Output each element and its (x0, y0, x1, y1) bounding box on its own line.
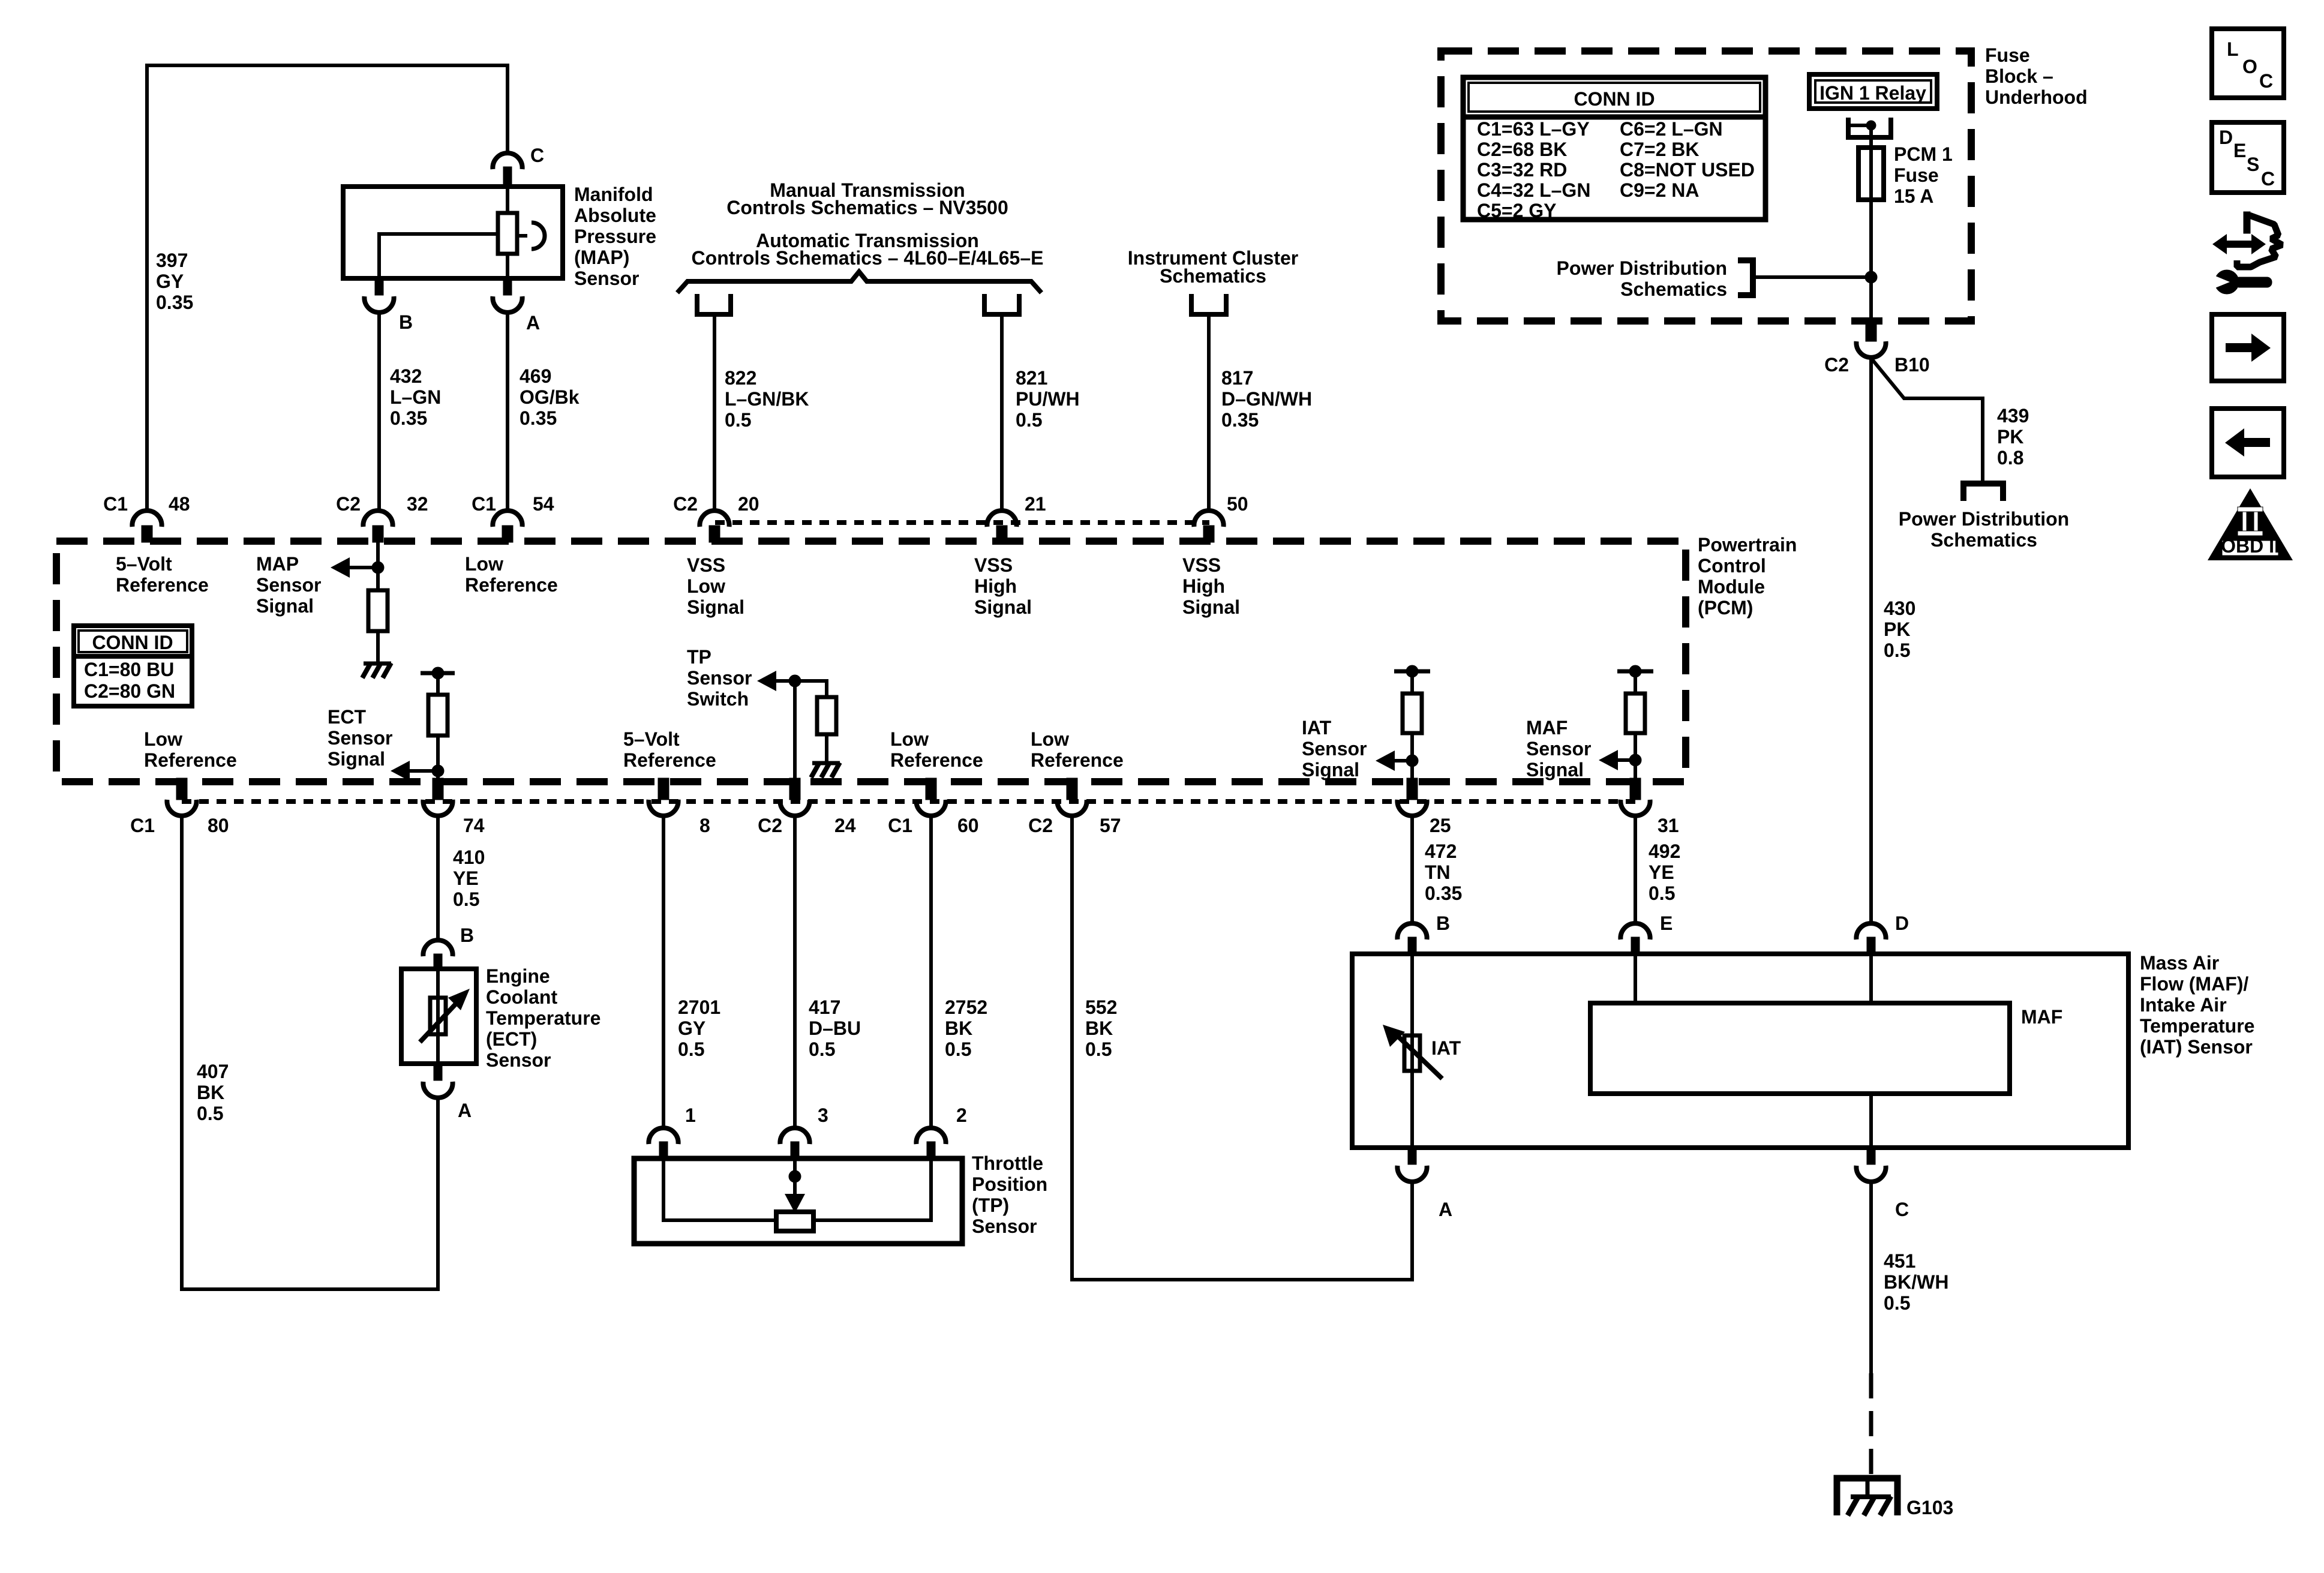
svg-text:PCM 1: PCM 1 (1894, 143, 1953, 165)
svg-text:C1: C1 (103, 493, 128, 515)
svg-text:Sensor: Sensor (486, 1049, 551, 1071)
svg-text:PU/WH: PU/WH (1016, 388, 1080, 410)
svg-text:21: 21 (1025, 493, 1046, 515)
svg-text:Controls Schematics – NV3500: Controls Schematics – NV3500 (726, 197, 1008, 218)
svg-text:451: 451 (1884, 1250, 1915, 1272)
svg-text:YE: YE (453, 867, 479, 889)
svg-text:L–GN: L–GN (390, 386, 441, 408)
svg-text:430: 430 (1884, 598, 1915, 619)
svg-text:Reference: Reference (465, 574, 558, 596)
svg-text:VSS: VSS (974, 554, 1013, 576)
svg-text:Low: Low (890, 728, 929, 750)
svg-text:80: 80 (208, 815, 229, 836)
svg-text:C: C (1895, 1199, 1909, 1220)
svg-text:Fuse: Fuse (1985, 44, 2030, 66)
svg-text:(TP): (TP) (972, 1194, 1009, 1216)
svg-text:Temperature: Temperature (2140, 1015, 2254, 1037)
svg-text:OBD II: OBD II (2221, 535, 2280, 557)
svg-text:0.5: 0.5 (1649, 882, 1675, 904)
svg-text:IAT: IAT (1431, 1037, 1461, 1059)
svg-text:Intake Air: Intake Air (2140, 994, 2227, 1016)
svg-text:VSS: VSS (687, 554, 725, 576)
svg-text:Sensor: Sensor (687, 667, 752, 689)
svg-text:C4=32 L–GN: C4=32 L–GN (1477, 179, 1590, 201)
svg-text:50: 50 (1227, 493, 1248, 515)
svg-text:Coolant: Coolant (486, 986, 557, 1008)
svg-text:B: B (1436, 912, 1450, 934)
svg-text:PK: PK (1884, 619, 1910, 640)
svg-text:822: 822 (725, 367, 756, 389)
svg-text:C6=2 L–GN: C6=2 L–GN (1620, 118, 1723, 140)
svg-text:0.5: 0.5 (1884, 640, 1910, 661)
svg-text:Low: Low (465, 553, 503, 575)
svg-text:2: 2 (956, 1104, 967, 1126)
svg-text:Position: Position (972, 1173, 1047, 1195)
svg-text:D–BU: D–BU (809, 1017, 861, 1039)
svg-text:20: 20 (738, 493, 759, 515)
svg-text:C5=2 GY: C5=2 GY (1477, 200, 1557, 221)
svg-text:439: 439 (1997, 405, 2029, 427)
svg-text:54: 54 (533, 493, 554, 515)
svg-text:Schematics: Schematics (1620, 278, 1727, 300)
svg-text:2701: 2701 (678, 996, 720, 1018)
svg-text:432: 432 (390, 365, 422, 387)
svg-text:0.35: 0.35 (1425, 882, 1462, 904)
svg-text:0.5: 0.5 (453, 888, 479, 910)
svg-text:C8=NOT USED: C8=NOT USED (1620, 159, 1755, 181)
svg-text:0.5: 0.5 (1884, 1292, 1910, 1314)
svg-text:C2: C2 (758, 815, 782, 836)
svg-text:Schematics: Schematics (1930, 529, 2037, 551)
svg-text:Sensor: Sensor (1302, 738, 1367, 760)
svg-text:Throttle: Throttle (972, 1152, 1043, 1174)
svg-text:821: 821 (1016, 367, 1047, 389)
svg-text:24: 24 (834, 815, 856, 836)
svg-text:BK: BK (197, 1082, 224, 1103)
svg-text:GY: GY (678, 1017, 705, 1039)
svg-text:C2: C2 (336, 493, 361, 515)
svg-text:C1: C1 (130, 815, 155, 836)
svg-text:Underhood: Underhood (1985, 86, 2088, 108)
svg-text:C1=80 BU: C1=80 BU (84, 659, 174, 680)
svg-text:552: 552 (1085, 996, 1117, 1018)
svg-text:Sensor: Sensor (972, 1215, 1037, 1237)
svg-text:C3=32 RD: C3=32 RD (1477, 159, 1567, 181)
svg-text:Switch: Switch (687, 688, 749, 710)
svg-text:A: A (526, 312, 540, 334)
svg-text:0.5: 0.5 (809, 1038, 835, 1060)
svg-text:2752: 2752 (945, 996, 987, 1018)
svg-text:B: B (460, 924, 474, 946)
svg-text:472: 472 (1425, 840, 1457, 862)
svg-text:417: 417 (809, 996, 840, 1018)
svg-text:A: A (1439, 1199, 1452, 1220)
svg-text:0.5: 0.5 (1016, 409, 1042, 431)
svg-text:High: High (974, 575, 1017, 597)
svg-text:Schematics: Schematics (1160, 265, 1266, 287)
svg-text:Signal: Signal (974, 596, 1032, 618)
svg-text:492: 492 (1649, 840, 1680, 862)
svg-text:D–GN/WH: D–GN/WH (1221, 388, 1312, 410)
svg-text:5–Volt: 5–Volt (623, 728, 680, 750)
svg-text:O: O (2242, 56, 2257, 77)
svg-text:Signal: Signal (687, 596, 744, 618)
svg-text:C2: C2 (1824, 354, 1849, 376)
svg-text:L: L (2227, 38, 2239, 60)
svg-text:Signal: Signal (328, 748, 385, 770)
svg-text:CONN ID: CONN ID (92, 632, 173, 653)
svg-text:C2: C2 (1028, 815, 1053, 836)
svg-text:8: 8 (699, 815, 710, 836)
svg-text:TP: TP (687, 646, 711, 668)
svg-text:0.35: 0.35 (390, 407, 427, 429)
svg-text:ECT: ECT (328, 706, 366, 728)
svg-text:Powertrain: Powertrain (1698, 534, 1797, 556)
svg-text:C9=2 NA: C9=2 NA (1620, 179, 1700, 201)
svg-text:C1: C1 (888, 815, 912, 836)
svg-text:C7=2 BK: C7=2 BK (1620, 139, 1700, 160)
svg-text:Reference: Reference (890, 749, 983, 771)
svg-text:Signal: Signal (1302, 759, 1359, 781)
svg-text:TN: TN (1425, 861, 1451, 883)
svg-text:Reference: Reference (623, 749, 716, 771)
svg-text:31: 31 (1658, 815, 1679, 836)
svg-text:Low: Low (1031, 728, 1069, 750)
svg-text:E: E (1660, 912, 1673, 934)
svg-text:GY: GY (156, 271, 184, 292)
svg-text:PK: PK (1997, 426, 2023, 448)
svg-text:Sensor: Sensor (328, 727, 392, 749)
svg-text:Power Distribution: Power Distribution (1557, 257, 1727, 279)
svg-text:S: S (2247, 154, 2259, 175)
svg-text:Reference: Reference (116, 574, 209, 596)
svg-text:Engine: Engine (486, 965, 550, 987)
svg-text:Temperature: Temperature (486, 1007, 600, 1029)
svg-text:5–Volt: 5–Volt (116, 553, 172, 575)
svg-text:0.8: 0.8 (1997, 447, 2023, 469)
svg-text:817: 817 (1221, 367, 1253, 389)
svg-text:E: E (2233, 140, 2246, 161)
svg-text:C: C (2259, 70, 2273, 92)
svg-text:CONN ID: CONN ID (1574, 88, 1655, 110)
svg-text:32: 32 (407, 493, 428, 515)
svg-text:BK: BK (945, 1017, 972, 1039)
svg-text:25: 25 (1430, 815, 1451, 836)
svg-text:Reference: Reference (1031, 749, 1124, 771)
svg-text:407: 407 (197, 1061, 229, 1082)
svg-text:Signal: Signal (1182, 596, 1240, 618)
svg-text:Low: Low (144, 728, 182, 750)
svg-text:Control: Control (1698, 555, 1766, 577)
svg-text:Reference: Reference (144, 749, 237, 771)
svg-text:C: C (530, 145, 544, 166)
svg-text:Absolute: Absolute (574, 205, 656, 226)
svg-text:D: D (2219, 127, 2233, 148)
svg-text:Controls Schematics – 4L60–E/4: Controls Schematics – 4L60–E/4L65–E (692, 247, 1044, 269)
svg-text:A: A (458, 1100, 472, 1121)
svg-text:BK/WH: BK/WH (1884, 1271, 1948, 1293)
svg-text:C: C (2261, 168, 2275, 190)
svg-text:0.5: 0.5 (945, 1038, 971, 1060)
svg-text:C1: C1 (472, 493, 496, 515)
svg-text:High: High (1182, 575, 1225, 597)
svg-text:1: 1 (685, 1104, 696, 1126)
svg-text:74: 74 (463, 815, 485, 836)
svg-text:MAF: MAF (1526, 717, 1568, 739)
svg-text:48: 48 (169, 493, 190, 515)
svg-text:B: B (399, 311, 413, 333)
svg-text:G103: G103 (1906, 1497, 1953, 1518)
svg-text:Sensor: Sensor (1526, 738, 1591, 760)
svg-text:VSS: VSS (1182, 554, 1221, 576)
svg-text:0.35: 0.35 (520, 407, 557, 429)
svg-text:Block –: Block – (1985, 65, 2053, 87)
svg-text:(MAP): (MAP) (574, 247, 629, 268)
svg-text:C1=63 L–GY: C1=63 L–GY (1477, 118, 1590, 140)
svg-text:Sensor: Sensor (574, 268, 639, 289)
svg-text:IGN 1 Relay: IGN 1 Relay (1819, 82, 1926, 104)
svg-text:Fuse: Fuse (1894, 164, 1939, 186)
svg-text:0.5: 0.5 (1085, 1038, 1112, 1060)
svg-text:YE: YE (1649, 861, 1674, 883)
svg-text:OG/Bk: OG/Bk (520, 386, 580, 408)
svg-text:MAF: MAF (2021, 1006, 2062, 1028)
svg-text:15 A: 15 A (1894, 185, 1933, 207)
svg-text:(ECT): (ECT) (486, 1028, 537, 1050)
svg-text:0.5: 0.5 (678, 1038, 704, 1060)
svg-text:Mass Air: Mass Air (2140, 952, 2219, 974)
svg-text:397: 397 (156, 250, 188, 271)
svg-text:57: 57 (1100, 815, 1121, 836)
svg-text:Power Distribution: Power Distribution (1899, 508, 2069, 530)
svg-text:L–GN/BK: L–GN/BK (725, 388, 809, 410)
svg-text:C2: C2 (673, 493, 698, 515)
svg-text:BK: BK (1085, 1017, 1113, 1039)
svg-text:469: 469 (520, 365, 551, 387)
svg-text:60: 60 (957, 815, 979, 836)
svg-text:D: D (1895, 912, 1909, 934)
svg-text:0.5: 0.5 (197, 1103, 223, 1124)
svg-text:(IAT) Sensor: (IAT) Sensor (2140, 1036, 2253, 1058)
svg-text:3: 3 (818, 1104, 828, 1126)
svg-text:Signal: Signal (1526, 759, 1584, 781)
svg-text:(PCM): (PCM) (1698, 597, 1753, 619)
svg-text:410: 410 (453, 846, 485, 868)
svg-text:0.35: 0.35 (1221, 409, 1259, 431)
svg-text:MAP: MAP (256, 553, 299, 575)
svg-text:Low: Low (687, 575, 725, 597)
svg-text:Flow (MAF)/: Flow (MAF)/ (2140, 973, 2248, 995)
svg-text:0.35: 0.35 (156, 292, 193, 313)
svg-text:Sensor: Sensor (256, 574, 321, 596)
svg-text:Manifold: Manifold (574, 184, 653, 205)
svg-text:0.5: 0.5 (725, 409, 751, 431)
svg-text:B10: B10 (1894, 354, 1930, 376)
svg-text:Module: Module (1698, 576, 1765, 598)
svg-text:IAT: IAT (1302, 717, 1332, 739)
svg-text:Pressure: Pressure (574, 226, 656, 247)
svg-text:Signal: Signal (256, 595, 314, 617)
svg-text:C2=68 BK: C2=68 BK (1477, 139, 1567, 160)
svg-text:C2=80 GN: C2=80 GN (84, 680, 175, 702)
